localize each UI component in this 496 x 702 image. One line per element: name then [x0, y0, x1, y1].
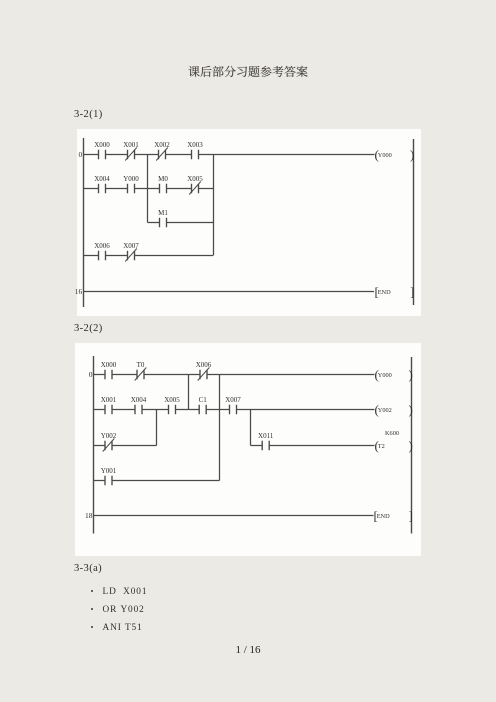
NC contact X006 — [196, 361, 212, 381]
svg-text:X003: X003 — [187, 141, 203, 149]
svg-text:]: ] — [410, 284, 414, 299]
left power rail — [93, 356, 95, 534]
NC contact X007 — [123, 242, 139, 262]
NO contact Y001 — [101, 467, 117, 486]
branch junction vertical — [147, 155, 149, 223]
instruction END — [374, 508, 413, 523]
svg-text:Y002: Y002 — [378, 407, 392, 414]
NO contact M1 — [158, 209, 168, 228]
wire — [94, 480, 220, 482]
svg-text:K600: K600 — [385, 430, 399, 437]
document page title 课后部分习题参考答案 (vector text) — [188, 63, 310, 79]
NC contact X005 — [187, 175, 203, 195]
NO contact X005 — [164, 396, 180, 415]
svg-text:X007: X007 — [123, 242, 139, 250]
wire — [94, 445, 157, 447]
wire — [94, 515, 374, 517]
NO contact C1 — [199, 396, 208, 415]
svg-text:): ) — [409, 402, 413, 417]
svg-text:C1: C1 — [199, 396, 208, 404]
svg-text:T0: T0 — [137, 361, 145, 369]
left power rail — [83, 138, 85, 307]
instruction list — [91, 587, 147, 597]
svg-text:): ) — [409, 438, 413, 453]
svg-text:M0: M0 — [158, 175, 168, 183]
svg-text:X000: X000 — [94, 141, 110, 149]
NC contact X002 — [154, 141, 170, 161]
svg-text:X011: X011 — [258, 432, 274, 440]
svg-text:X001: X001 — [101, 396, 117, 404]
NC contact T0 — [135, 361, 147, 381]
coil Y000 — [375, 147, 415, 162]
svg-text:]: ] — [409, 508, 413, 523]
svg-text:T2: T2 — [378, 443, 385, 450]
page number — [0, 644, 496, 656]
coil Y002 — [375, 402, 413, 417]
NO contact X011 — [258, 432, 274, 451]
wire — [94, 409, 375, 411]
NO contact X004 — [94, 175, 110, 194]
svg-text:X000: X000 — [101, 361, 117, 369]
NC contact Y002 — [101, 432, 117, 452]
svg-text:X007: X007 — [225, 396, 241, 404]
svg-text:): ) — [410, 147, 414, 162]
svg-text:X006: X006 — [196, 361, 212, 369]
svg-text:X004: X004 — [94, 175, 110, 183]
svg-text:Y000: Y000 — [123, 175, 139, 183]
svg-text:X001: X001 — [123, 141, 139, 149]
instruction END — [375, 284, 415, 299]
wire — [83, 154, 375, 156]
NO contact M0 — [158, 175, 168, 194]
wire — [83, 255, 213, 257]
wire — [94, 374, 375, 376]
NO contact X004 — [131, 396, 147, 415]
svg-text:END: END — [377, 513, 390, 520]
NO contact X007 — [225, 396, 241, 415]
svg-text:16: 16 — [75, 287, 83, 296]
coil T2 — [375, 430, 413, 453]
wire — [251, 445, 375, 447]
branch junction vertical — [156, 410, 158, 446]
section label 3-2(2) — [74, 323, 103, 334]
svg-text:Y000: Y000 — [378, 372, 392, 379]
svg-text:X004: X004 — [131, 396, 147, 404]
section label 3-2(1) — [74, 109, 103, 120]
wire — [148, 222, 214, 224]
svg-text:0: 0 — [89, 370, 93, 379]
NO contact X000 — [101, 361, 117, 380]
branch junction vertical — [219, 375, 221, 481]
svg-text:X005: X005 — [187, 175, 203, 183]
svg-text:X005: X005 — [164, 396, 180, 404]
right power rail — [411, 357, 413, 534]
svg-text:X002: X002 — [154, 141, 170, 149]
svg-text:18: 18 — [85, 511, 93, 520]
right power rail — [413, 139, 415, 305]
section label 3-3(a) — [74, 563, 102, 574]
branch junction vertical — [250, 410, 252, 446]
svg-text:Y000: Y000 — [378, 152, 392, 159]
NO contact Y000 — [123, 175, 139, 194]
wire — [83, 291, 374, 293]
svg-text:0: 0 — [78, 150, 82, 159]
wire — [83, 188, 213, 190]
svg-text:M1: M1 — [158, 209, 168, 217]
NO contact X001 — [101, 396, 117, 415]
svg-text:END: END — [378, 289, 391, 296]
branch junction vertical — [213, 155, 215, 256]
NC contact X001 — [123, 141, 139, 161]
NO contact X006 — [94, 242, 110, 261]
svg-text:Y001: Y001 — [101, 467, 117, 475]
NO contact X003 — [187, 141, 203, 160]
svg-text:X006: X006 — [94, 242, 110, 250]
svg-text:): ) — [409, 367, 413, 382]
branch junction vertical — [188, 375, 190, 410]
svg-text:Y002: Y002 — [101, 432, 117, 440]
coil Y000 — [375, 367, 413, 382]
NO contact X000 — [94, 141, 110, 160]
ladder diagram figure 3-2(2) — [75, 343, 421, 556]
ladder diagram figure 3-2(1) — [77, 129, 421, 316]
